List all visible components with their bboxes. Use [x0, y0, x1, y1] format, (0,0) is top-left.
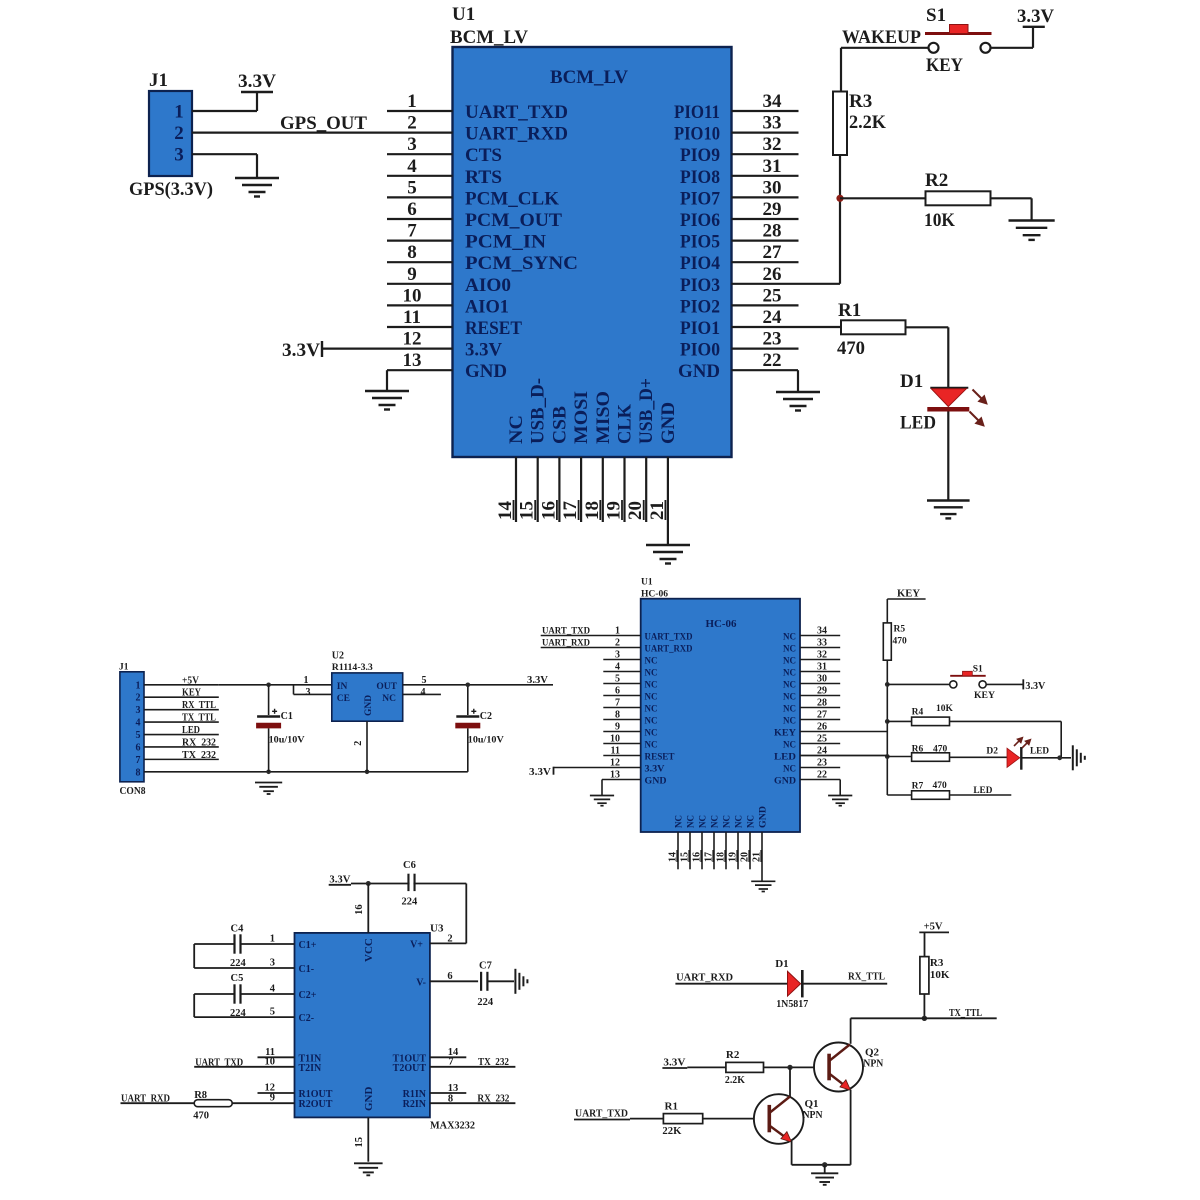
wire TX_TTL	[851, 1017, 997, 1019]
junction	[266, 770, 271, 775]
wire T1OUT stub	[430, 1056, 466, 1058]
svg-text:NC: NC	[699, 815, 709, 828]
svg-text:NC: NC	[783, 656, 796, 666]
svg-text:470: 470	[193, 1111, 209, 1122]
svg-text:10K: 10K	[924, 210, 955, 231]
svg-text:8: 8	[407, 242, 417, 263]
svg-text:R2IN: R2IN	[403, 1099, 427, 1110]
wire HC-06 pin 7	[603, 707, 640, 709]
svg-text:8: 8	[448, 1094, 453, 1105]
wire	[824, 1165, 826, 1174]
svg-text:10K: 10K	[930, 969, 950, 981]
svg-text:KEY: KEY	[182, 688, 202, 699]
wire Q2 emitter	[850, 1090, 852, 1165]
wire 3.3V to pin 12	[554, 767, 641, 769]
svg-text:22: 22	[817, 770, 827, 781]
wire	[800, 755, 887, 757]
diode D1 1N5817	[788, 970, 803, 997]
ground	[255, 783, 282, 795]
LED D2 arrows	[1014, 738, 1030, 748]
svg-text:U3: U3	[430, 923, 444, 935]
svg-text:3: 3	[174, 145, 184, 166]
wire HC-06 pin 26	[800, 731, 887, 733]
svg-text:T2OUT: T2OUT	[393, 1063, 427, 1074]
svg-text:C5: C5	[231, 973, 244, 984]
svg-text:470: 470	[893, 637, 908, 647]
capacitor C2	[455, 685, 480, 772]
wire R1 to D1	[906, 326, 949, 328]
resistor R1	[663, 1114, 702, 1124]
wire HC-06 pin 2	[541, 647, 641, 649]
transistor Q1 NPN	[754, 1094, 804, 1144]
wire HC-06 pin 8	[603, 719, 640, 721]
svg-text:S1: S1	[926, 5, 946, 26]
wire C1+ pin 1	[241, 943, 295, 945]
wire HC-06 pin 18	[725, 832, 727, 869]
svg-text:7: 7	[448, 1057, 453, 1068]
svg-text:1: 1	[174, 102, 184, 123]
wire HC-06 pin 29	[800, 695, 840, 697]
wire HC-06 pin 24	[800, 755, 887, 757]
wire U1 pin 1	[387, 110, 453, 112]
svg-text:PIO9: PIO9	[680, 145, 720, 166]
svg-text:NC: NC	[645, 716, 658, 726]
svg-text:BCM_LV: BCM_LV	[450, 27, 528, 48]
wire U1 pin 23	[732, 348, 799, 350]
regulator U2 body	[332, 673, 403, 721]
svg-text:CTS: CTS	[465, 145, 502, 166]
svg-text:7: 7	[136, 755, 141, 766]
wire +5V rail	[219, 684, 294, 686]
svg-text:PIO1: PIO1	[680, 318, 720, 339]
pin number underline	[760, 850, 762, 862]
wire down to LED node	[1060, 721, 1062, 757]
svg-text:R7: R7	[912, 782, 924, 792]
wire D2 to ground	[1023, 757, 1072, 759]
wire U2 OUT 3.3V	[403, 684, 553, 686]
svg-text:3.3V: 3.3V	[465, 340, 502, 361]
wire	[193, 944, 195, 968]
junction	[366, 881, 371, 886]
svg-text:10u/10V: 10u/10V	[468, 736, 504, 746]
svg-text:NC: NC	[783, 716, 796, 726]
svg-text:2.2K: 2.2K	[725, 1074, 745, 1086]
svg-text:PIO0: PIO0	[680, 340, 720, 361]
wire	[840, 197, 926, 199]
svg-text:2: 2	[174, 123, 184, 144]
wire C7 to ground	[487, 980, 514, 982]
svg-text:J1: J1	[119, 663, 129, 673]
3.3V underline bar	[329, 884, 351, 886]
3.3V power bar	[241, 91, 273, 93]
svg-text:PIO11: PIO11	[674, 102, 720, 123]
pin number underline	[736, 850, 738, 862]
wire C1- pin 3	[194, 967, 294, 969]
svg-text:NPN: NPN	[803, 1109, 823, 1121]
pin number underline	[712, 850, 714, 862]
svg-text:UART_RXD: UART_RXD	[465, 124, 568, 145]
wire to U2 IN	[294, 684, 332, 686]
resistor R2	[726, 1062, 764, 1072]
svg-text:+5V: +5V	[182, 675, 200, 686]
svg-text:2: 2	[136, 693, 141, 704]
pin number underline	[599, 500, 601, 520]
3.3V underline bar	[662, 1067, 687, 1069]
wire J1 pin 6	[144, 746, 219, 748]
wire HC-06 pin 15	[689, 832, 691, 869]
svg-text:PIO2: PIO2	[680, 296, 720, 317]
svg-text:13: 13	[448, 1083, 459, 1094]
svg-text:R8: R8	[194, 1090, 207, 1101]
svg-text:WAKEUP: WAKEUP	[842, 27, 921, 48]
svg-text:5: 5	[136, 730, 141, 741]
svg-text:MAX3232: MAX3232	[430, 1120, 475, 1132]
svg-text:7: 7	[615, 698, 620, 709]
pin number underline	[513, 500, 515, 520]
pin number underline	[534, 500, 536, 520]
svg-text:6: 6	[407, 199, 417, 220]
svg-text:6: 6	[136, 742, 141, 753]
svg-text:30: 30	[763, 177, 782, 198]
resistor R6	[912, 753, 950, 762]
svg-text:NC: NC	[645, 704, 658, 714]
svg-text:PCM_CLK: PCM_CLK	[465, 188, 559, 209]
wire	[797, 370, 799, 391]
wire R2 to node	[764, 1066, 791, 1068]
svg-text:NC: NC	[382, 694, 396, 704]
svg-text:34: 34	[763, 91, 783, 112]
svg-text:3.3V: 3.3V	[1025, 681, 1046, 692]
wire HC-06 pin 10	[603, 743, 640, 745]
resistor R5	[883, 623, 891, 660]
svg-text:470: 470	[933, 781, 948, 791]
svg-text:GND: GND	[759, 806, 769, 828]
svg-text:C1-: C1-	[299, 964, 315, 975]
wire R3 to PIO3	[839, 155, 841, 284]
svg-text:NC: NC	[783, 680, 796, 690]
wire pin13 to ground	[601, 780, 603, 796]
LED D1	[927, 388, 969, 410]
wire V+ pin 2	[430, 942, 466, 944]
wire VCC pin 16	[367, 884, 369, 933]
svg-text:D1: D1	[775, 958, 788, 970]
svg-text:D1: D1	[900, 371, 923, 392]
svg-text:3.3V: 3.3V	[282, 340, 320, 361]
svg-text:CON8: CON8	[120, 786, 146, 797]
wire to R6	[887, 756, 911, 758]
wire U2 NC stub	[403, 693, 441, 695]
wire U1 pin 30	[732, 196, 799, 198]
svg-text:15: 15	[354, 1137, 365, 1148]
wire HC-06 pin 4	[603, 671, 640, 673]
svg-text:26: 26	[763, 264, 782, 285]
svg-text:RX_232: RX_232	[477, 1094, 509, 1105]
junction	[1057, 755, 1062, 760]
svg-text:C2-: C2-	[299, 1013, 315, 1024]
svg-text:VCC: VCC	[363, 938, 375, 962]
svg-text:22: 22	[763, 350, 782, 371]
IC U3 MAX3232 body	[295, 933, 430, 1118]
wire HC-06 pin 23	[800, 767, 840, 769]
wire HC-06 pin 31	[800, 671, 840, 673]
svg-text:4: 4	[136, 718, 141, 729]
wire KEY to R5	[886, 599, 888, 623]
svg-text:28: 28	[763, 221, 782, 242]
svg-text:KEY: KEY	[926, 55, 963, 76]
svg-text:C1+: C1+	[299, 940, 317, 951]
junction	[885, 754, 890, 759]
capacitor C7	[481, 972, 487, 991]
svg-text:29: 29	[817, 686, 827, 697]
wire 3.3V to U1 pin12	[322, 348, 453, 350]
wire J1 pin 7	[144, 758, 219, 760]
svg-text:23: 23	[763, 329, 782, 350]
svg-text:U2: U2	[332, 651, 344, 662]
svg-text:27: 27	[817, 710, 827, 721]
svg-text:24: 24	[763, 307, 783, 328]
wire Q1 emitter	[791, 1141, 793, 1165]
svg-text:USB_D-: USB_D-	[528, 378, 549, 444]
svg-text:10u/10V: 10u/10V	[269, 736, 305, 746]
svg-text:3: 3	[306, 687, 311, 698]
wire HC-06 pin 19	[737, 832, 739, 869]
svg-text:C7: C7	[479, 961, 492, 972]
pin number underline	[621, 500, 623, 520]
wire	[1030, 198, 1032, 220]
svg-text:R1: R1	[838, 300, 861, 321]
svg-text:NC: NC	[735, 815, 745, 828]
wire HC-06 pin 9	[603, 731, 640, 733]
wire U1 pin 18	[602, 457, 604, 522]
wire HC-06 pin 22	[800, 779, 840, 781]
svg-text:9: 9	[407, 264, 417, 285]
wire U1 pin 31	[732, 175, 799, 177]
wire V- pin 6	[430, 980, 478, 982]
svg-text:11: 11	[611, 746, 620, 757]
wire HC-06 pin 11	[603, 755, 640, 757]
svg-text:UART_RXD: UART_RXD	[121, 1094, 170, 1105]
pin number underline	[676, 850, 678, 862]
svg-text:NC: NC	[783, 668, 796, 678]
wire U1 pin 19	[623, 457, 625, 522]
svg-text:3.3V: 3.3V	[645, 764, 665, 774]
wire	[193, 994, 195, 1017]
3.3V tap bar	[321, 341, 323, 357]
ground	[590, 796, 614, 806]
svg-text:34: 34	[817, 626, 827, 637]
svg-text:224: 224	[402, 897, 419, 908]
svg-text:D2: D2	[986, 747, 998, 757]
svg-text:8: 8	[136, 767, 141, 778]
wire U1 pin 13	[387, 369, 453, 371]
ground	[776, 392, 820, 411]
svg-text:AIO1: AIO1	[465, 296, 509, 317]
svg-text:NC: NC	[645, 680, 658, 690]
svg-text:470: 470	[933, 744, 948, 754]
svg-text:5: 5	[407, 177, 417, 198]
svg-text:31: 31	[817, 662, 827, 673]
wire J1 pin1 to 3.3V	[192, 110, 257, 112]
wire	[194, 943, 234, 945]
wire J1 pin 5	[144, 734, 219, 736]
svg-text:NPN: NPN	[863, 1058, 883, 1070]
wire U1 pin 22 to ground	[732, 369, 799, 371]
svg-text:5: 5	[270, 1007, 275, 1018]
wire J1 pin 2	[144, 696, 219, 698]
svg-text:KEY: KEY	[774, 728, 796, 738]
svg-text:30: 30	[817, 674, 827, 685]
svg-text:TX_232: TX_232	[478, 1057, 509, 1068]
capacitor C1	[256, 685, 281, 772]
3.3V power bar	[1023, 26, 1045, 28]
svg-text:224: 224	[477, 997, 494, 1008]
svg-text:U1: U1	[452, 4, 475, 25]
svg-text:PIO5: PIO5	[680, 232, 720, 253]
switch S1	[950, 671, 987, 688]
wire UART_RXD to D1	[675, 983, 787, 985]
wire 3.3V rail	[351, 883, 466, 885]
svg-text:RX_232: RX_232	[182, 737, 216, 748]
svg-text:RESET: RESET	[465, 318, 522, 339]
wire HC-06 pin 6	[603, 695, 640, 697]
wire S1 to 3.3V	[986, 683, 1023, 685]
wire to Q2 collector	[850, 1018, 852, 1044]
svg-text:6: 6	[615, 686, 620, 697]
LED D2	[1007, 747, 1021, 770]
svg-text:28: 28	[817, 698, 827, 709]
wire HC-06 pin 14	[677, 832, 679, 869]
switch S1	[925, 25, 992, 53]
svg-text:224: 224	[230, 1008, 247, 1019]
svg-text:GND: GND	[658, 402, 679, 444]
svg-text:UART_TXD: UART_TXD	[542, 626, 590, 636]
wire T2OUT TX_232	[430, 1066, 516, 1068]
ground	[354, 1163, 383, 1175]
ground	[646, 545, 690, 564]
wire R4 east	[950, 720, 1062, 722]
svg-text:2: 2	[407, 113, 417, 134]
wire U2 GND pin	[366, 721, 368, 772]
wire ground rail	[144, 771, 468, 773]
pin number underline	[724, 850, 726, 862]
svg-text:NC: NC	[783, 704, 796, 714]
wire R7 east	[950, 794, 1012, 796]
svg-text:NC: NC	[711, 815, 721, 828]
UART_TXD underline bar	[574, 1119, 630, 1121]
op IC U1 BCM_LV body	[453, 47, 732, 457]
wire U1 pin 25	[732, 304, 799, 306]
wire HC-06 pin 17	[713, 832, 715, 869]
wire J1 pin3 to ground	[192, 153, 257, 155]
wire U1 pin 32	[732, 153, 799, 155]
svg-text:R1: R1	[665, 1101, 678, 1113]
svg-text:13: 13	[403, 350, 422, 371]
ground	[365, 391, 409, 410]
resistor R7	[912, 791, 950, 800]
pin number underline	[664, 500, 666, 520]
junction	[885, 682, 890, 687]
svg-text:C4: C4	[231, 924, 245, 935]
resistor R1	[841, 320, 906, 334]
svg-text:KEY: KEY	[897, 588, 921, 599]
svg-text:PCM_SYNC: PCM_SYNC	[465, 253, 578, 274]
pin number underline	[556, 500, 558, 520]
svg-text:31: 31	[763, 156, 782, 177]
wire R2 to ground	[991, 197, 1032, 199]
wire U1 pin 4	[387, 175, 453, 177]
wire R5 down bus	[886, 660, 888, 795]
junction node	[836, 195, 843, 202]
svg-text:IN: IN	[337, 682, 348, 692]
resistor R3	[833, 92, 847, 156]
svg-text:NC: NC	[723, 815, 733, 828]
wire U1 pin 9	[387, 283, 453, 285]
svg-text:LED: LED	[182, 725, 200, 736]
junction node	[822, 1162, 827, 1167]
svg-text:GPS(3.3V): GPS(3.3V)	[129, 179, 213, 200]
svg-text:HC-06: HC-06	[706, 619, 737, 630]
pin number underline	[700, 850, 702, 862]
svg-text:NC: NC	[645, 656, 658, 666]
resistor R4	[912, 717, 950, 726]
svg-text:PIO3: PIO3	[680, 275, 720, 296]
svg-text:NC: NC	[687, 815, 697, 828]
ground	[1009, 221, 1055, 240]
svg-text:2: 2	[447, 934, 452, 945]
wire C2+ pin 4	[241, 993, 295, 995]
svg-text:224: 224	[230, 958, 247, 969]
svg-text:LED: LED	[774, 752, 796, 762]
wire	[256, 154, 258, 177]
wire T1IN stub	[258, 1056, 295, 1058]
wire UART_TXD to R1	[630, 1118, 663, 1120]
wire D1 to ground	[947, 412, 949, 501]
wire down to R3	[840, 48, 842, 92]
pin number underline	[748, 850, 750, 862]
wire	[256, 92, 258, 111]
+5V power bar	[919, 931, 949, 933]
svg-text:12: 12	[403, 329, 422, 350]
svg-text:RX_TTL: RX_TTL	[182, 700, 216, 711]
wire GPS_OUT net	[192, 132, 453, 134]
svg-text:11: 11	[403, 307, 421, 328]
wire HC-06 pin 3	[603, 659, 640, 661]
wire U1 pin 33	[732, 132, 799, 134]
wire C2- pin 5	[194, 1016, 294, 1018]
svg-text:PIO4: PIO4	[680, 253, 720, 274]
capacitor C5	[235, 984, 241, 1003]
svg-text:R2: R2	[925, 170, 948, 191]
wire	[947, 327, 949, 387]
ground	[515, 969, 527, 994]
svg-text:10: 10	[610, 734, 620, 745]
svg-text:CE: CE	[337, 694, 350, 704]
wire U1 pin 15	[537, 457, 539, 522]
svg-text:V-: V-	[416, 977, 426, 988]
svg-text:PIO6: PIO6	[680, 210, 720, 231]
svg-text:CLK: CLK	[615, 404, 636, 444]
svg-text:GND: GND	[645, 776, 667, 786]
svg-text:3.3V: 3.3V	[527, 675, 549, 686]
svg-text:27: 27	[763, 242, 783, 263]
svg-text:GND: GND	[364, 695, 374, 716]
svg-text:9: 9	[270, 1093, 275, 1104]
wire to R7	[887, 794, 911, 796]
wire R1IN stub	[430, 1092, 466, 1094]
svg-text:TX_TTL: TX_TTL	[182, 713, 216, 724]
ground	[828, 796, 852, 806]
svg-text:NC: NC	[645, 728, 658, 738]
